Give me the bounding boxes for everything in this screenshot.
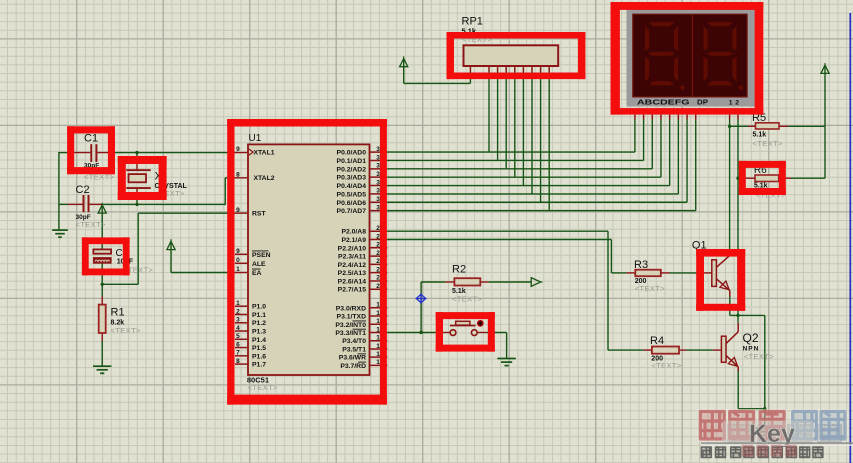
svg-text:U1: U1 [249, 133, 262, 144]
svg-text:P0.5/AD5: P0.5/AD5 [337, 191, 367, 198]
svg-text:XTAL2: XTAL2 [254, 175, 275, 182]
svg-text:P2.0/A8: P2.0/A8 [341, 229, 366, 236]
svg-text:<TEXT>: <TEXT> [635, 284, 666, 293]
svg-text:2: 2 [376, 283, 380, 290]
svg-text:C2: C2 [76, 184, 90, 196]
svg-text:1: 1 [236, 266, 240, 273]
svg-text:P1.6: P1.6 [252, 353, 266, 360]
svg-text:<TEXT>: <TEXT> [76, 220, 107, 229]
svg-text:P3.2/INT0: P3.2/INT0 [335, 322, 366, 329]
svg-text:<TEXT>: <TEXT> [111, 326, 142, 335]
svg-text:3: 3 [376, 179, 380, 186]
svg-text:1: 1 [236, 300, 240, 307]
svg-text:P3.1/TXD: P3.1/TXD [337, 314, 367, 321]
svg-text:3: 3 [376, 171, 380, 178]
svg-text:P3.6/WR: P3.6/WR [339, 355, 366, 362]
svg-text:2: 2 [376, 275, 380, 282]
svg-text:1: 1 [376, 310, 380, 317]
svg-text:P1.0: P1.0 [252, 304, 266, 311]
svg-text:P0.2/AD2: P0.2/AD2 [337, 166, 367, 173]
svg-text:1: 1 [376, 302, 380, 309]
svg-text:8: 8 [236, 358, 240, 365]
svg-text:P0.6/AD6: P0.6/AD6 [337, 200, 367, 207]
svg-text:2: 2 [376, 258, 380, 265]
svg-text:1: 1 [376, 351, 380, 358]
svg-text:P3.5/T1: P3.5/T1 [342, 346, 366, 353]
svg-text:2: 2 [735, 99, 739, 106]
svg-text:<TEXT>: <TEXT> [452, 295, 483, 304]
svg-text:9: 9 [236, 207, 240, 214]
svg-text:3: 3 [376, 163, 380, 170]
svg-text:Q2: Q2 [743, 331, 759, 345]
svg-text:P1.7: P1.7 [252, 362, 266, 369]
svg-text:1: 1 [376, 359, 380, 366]
svg-text:P1.3: P1.3 [252, 329, 266, 336]
svg-text:5: 5 [236, 333, 240, 340]
svg-text:P0.3/AD3: P0.3/AD3 [337, 175, 367, 182]
svg-text:XTAL1: XTAL1 [254, 150, 275, 157]
svg-text:RST: RST [252, 211, 266, 218]
svg-text:2: 2 [376, 225, 380, 232]
svg-text:R3: R3 [634, 259, 648, 271]
svg-text:3: 3 [376, 146, 380, 153]
svg-text:9: 9 [236, 146, 240, 153]
svg-text:<TEXT>: <TEXT> [248, 383, 279, 392]
svg-text:3: 3 [376, 204, 380, 211]
svg-text:P2.7/A15: P2.7/A15 [338, 287, 367, 294]
svg-text:4: 4 [236, 325, 240, 332]
svg-text:ABCDEFG: ABCDEFG [637, 97, 690, 106]
svg-text:P2.5/A13: P2.5/A13 [338, 270, 367, 277]
svg-text:<TEXT>: <TEXT> [651, 361, 682, 370]
svg-text:8: 8 [236, 171, 240, 178]
svg-text:P3.7/RD: P3.7/RD [340, 363, 366, 370]
svg-text:DP: DP [697, 97, 708, 106]
svg-text:5.1k: 5.1k [753, 132, 767, 139]
svg-text:P2.2/A10: P2.2/A10 [338, 245, 367, 252]
svg-text:1: 1 [376, 335, 380, 342]
svg-text:P1.5: P1.5 [252, 345, 266, 352]
svg-text:9: 9 [236, 248, 240, 255]
svg-text:7: 7 [236, 350, 240, 357]
svg-text:P3.0/RXD: P3.0/RXD [336, 305, 366, 312]
svg-text:ALE: ALE [252, 261, 266, 268]
svg-text:2: 2 [376, 266, 380, 273]
svg-text:C1: C1 [84, 133, 98, 145]
svg-text:P2.1/A9: P2.1/A9 [341, 237, 366, 244]
svg-text:P0.0/AD0: P0.0/AD0 [337, 150, 367, 157]
svg-text:PSEN: PSEN [252, 252, 271, 259]
svg-text:P0.4/AD4: P0.4/AD4 [337, 183, 367, 190]
svg-text:P0.1/AD1: P0.1/AD1 [337, 158, 367, 165]
svg-text:P2.4/A12: P2.4/A12 [338, 262, 367, 269]
svg-text:R2: R2 [452, 264, 466, 276]
svg-text:EA: EA [252, 270, 262, 277]
svg-text:3: 3 [376, 154, 380, 161]
svg-text:3: 3 [236, 317, 240, 324]
svg-text:P2.6/A14: P2.6/A14 [338, 278, 367, 285]
svg-text:2: 2 [376, 242, 380, 249]
svg-text:1: 1 [376, 326, 380, 333]
svg-text:1: 1 [376, 343, 380, 350]
svg-text:R4: R4 [650, 335, 664, 347]
svg-text:P1.4: P1.4 [252, 337, 266, 344]
svg-text:P2.3/A11: P2.3/A11 [338, 254, 366, 261]
svg-text:P3.3/INT1: P3.3/INT1 [335, 330, 366, 337]
svg-text:<TEXT>: <TEXT> [744, 352, 775, 361]
svg-text:0: 0 [236, 257, 240, 264]
svg-text:P0.7/AD7: P0.7/AD7 [337, 208, 367, 215]
svg-text:P1.1: P1.1 [252, 312, 266, 319]
svg-text:2: 2 [376, 250, 380, 257]
svg-text:1: 1 [729, 99, 733, 106]
svg-text:2: 2 [236, 308, 240, 315]
svg-text:R1: R1 [111, 307, 125, 319]
svg-text:6: 6 [236, 341, 240, 348]
svg-text:2: 2 [376, 233, 380, 240]
svg-text:3: 3 [376, 196, 380, 203]
svg-text:1: 1 [376, 318, 380, 325]
svg-text:<TEXT>: <TEXT> [753, 139, 784, 148]
svg-text:C: C [116, 248, 123, 259]
svg-text:P3.4/T0: P3.4/T0 [342, 338, 366, 345]
svg-text:P1.2: P1.2 [252, 320, 266, 327]
svg-text:3: 3 [376, 188, 380, 195]
